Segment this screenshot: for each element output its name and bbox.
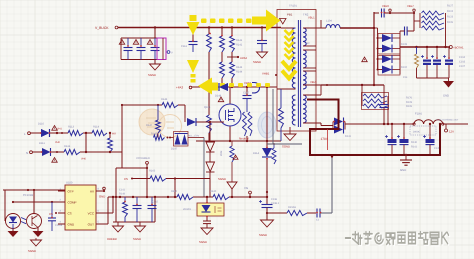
svg-text:D102: D102 xyxy=(401,66,408,69)
svg-text:SGND: SGND xyxy=(148,73,156,77)
svg-text:GND: GND xyxy=(99,195,105,199)
svg-text:R141: R141 xyxy=(236,39,243,42)
svg-text:HREBR: HREBR xyxy=(107,237,117,241)
svg-text:R141: R141 xyxy=(411,145,418,148)
svg-text:GND: GND xyxy=(400,168,406,172)
svg-text:VBL1: VBL1 xyxy=(308,17,315,20)
svg-text:VH0: VH0 xyxy=(55,141,60,144)
svg-text:SGND: SGND xyxy=(259,233,267,237)
svg-text:R176: R176 xyxy=(406,97,413,100)
svg-text:D141: D141 xyxy=(345,135,352,138)
svg-text:D105: D105 xyxy=(401,43,408,46)
svg-text:R113: R113 xyxy=(68,126,75,129)
svg-text:HV: HV xyxy=(90,190,94,194)
svg-text:VBL7: VBL7 xyxy=(407,4,414,8)
svg-text:SGND: SGND xyxy=(199,240,207,244)
svg-text:R165: R165 xyxy=(149,170,156,173)
svg-text:C14: C14 xyxy=(403,76,408,79)
svg-text:OUT: OUT xyxy=(88,223,95,227)
svg-text:VBL5: VBL5 xyxy=(310,81,317,84)
svg-text:D110: D110 xyxy=(38,123,45,126)
svg-text:+12V_OUT/GND_OUT: +12V_OUT/GND_OUT xyxy=(436,119,459,122)
svg-text:+BOTA1: +BOTA1 xyxy=(453,45,464,49)
svg-text:R140: R140 xyxy=(411,141,418,144)
svg-text:Q101: Q101 xyxy=(204,106,211,109)
svg-text:R143: R143 xyxy=(236,66,243,69)
svg-text:UPA2: UPA2 xyxy=(240,56,248,60)
svg-text:CS: CS xyxy=(49,212,53,216)
svg-text:V_BUCK: V_BUCK xyxy=(95,26,109,30)
svg-text:AVL_170V: AVL_170V xyxy=(188,134,200,137)
svg-text:F1(A): F1(A) xyxy=(415,113,422,116)
svg-text:GND: GND xyxy=(68,223,76,227)
svg-text:R120: R120 xyxy=(210,190,217,193)
svg-text:R126: R126 xyxy=(447,21,454,24)
svg-text:SGND: SGND xyxy=(28,249,36,253)
svg-text:TR101: TR101 xyxy=(289,5,297,8)
svg-text:C107: C107 xyxy=(459,65,466,68)
svg-text:2000C: 2000C xyxy=(413,131,420,134)
svg-text:SGND: SGND xyxy=(133,237,141,241)
svg-text:R126: R126 xyxy=(406,105,413,108)
svg-text:VH6: VH6 xyxy=(81,158,86,161)
svg-text:R123: R123 xyxy=(447,16,454,19)
svg-text:C147: C147 xyxy=(243,92,250,95)
svg-text:VBL6: VBL6 xyxy=(382,4,389,8)
svg-text:R149: R149 xyxy=(119,193,126,196)
svg-text:+PA3: +PA3 xyxy=(176,86,184,90)
svg-text:VG: VG xyxy=(244,186,248,190)
svg-text:C136-1: C136-1 xyxy=(271,202,280,205)
svg-text:COMP: COMP xyxy=(68,201,77,205)
svg-text:R127: R127 xyxy=(447,5,454,8)
svg-text:CS: CS xyxy=(68,212,72,216)
svg-text:V: V xyxy=(171,52,173,55)
svg-text:PC101B: PC101B xyxy=(23,194,33,197)
svg-text:GND: GND xyxy=(443,95,449,98)
svg-text:C141: C141 xyxy=(119,189,126,192)
svg-text:R114: R114 xyxy=(93,126,100,129)
svg-text:R128: R128 xyxy=(406,101,413,104)
svg-text:ZD101: ZD101 xyxy=(183,208,191,211)
svg-text:C136: C136 xyxy=(271,198,278,201)
svg-text:PB1: PB1 xyxy=(287,13,293,17)
svg-text:R150A: R150A xyxy=(288,206,296,209)
svg-text:D147: D147 xyxy=(171,148,178,151)
svg-text:170V: 170V xyxy=(321,137,329,141)
svg-text:VCC/AMER: VCC/AMER xyxy=(136,157,150,160)
svg-text:200k: 200k xyxy=(220,150,223,156)
svg-text:R110: R110 xyxy=(171,190,178,193)
svg-text:SGND: SGND xyxy=(218,177,226,181)
svg-text:VCC: VCC xyxy=(88,212,95,216)
svg-text:R124: R124 xyxy=(64,145,71,148)
svg-text:VH1: VH1 xyxy=(57,128,62,131)
svg-text:C116: C116 xyxy=(181,45,188,48)
svg-text:12V: 12V xyxy=(449,130,454,134)
svg-text:C103: C103 xyxy=(459,61,466,64)
svg-text:VHB1: VHB1 xyxy=(262,72,270,76)
svg-text:R144: R144 xyxy=(236,71,243,74)
svg-text:C142: C142 xyxy=(152,201,159,204)
svg-text:U100: U100 xyxy=(66,182,73,185)
svg-text:C104: C104 xyxy=(459,56,466,59)
svg-text:D114: D114 xyxy=(253,152,260,155)
svg-text:CS: CS xyxy=(124,177,128,181)
svg-text:R147: R147 xyxy=(146,124,153,127)
svg-text:SGND: SGND xyxy=(282,145,290,149)
svg-text:D111: D111 xyxy=(39,142,45,145)
svg-text:OTP: OTP xyxy=(68,190,74,194)
svg-text:SGND: SGND xyxy=(253,60,261,64)
svg-text:Neutral: Neutral xyxy=(239,137,249,141)
svg-text:R146: R146 xyxy=(161,98,168,101)
svg-text:HV: HV xyxy=(112,132,116,136)
svg-text:R124: R124 xyxy=(447,10,454,13)
svg-text:R145: R145 xyxy=(151,133,158,136)
svg-text:N: N xyxy=(26,151,28,155)
svg-text:R142: R142 xyxy=(236,44,243,47)
svg-text:L104: L104 xyxy=(326,20,332,23)
